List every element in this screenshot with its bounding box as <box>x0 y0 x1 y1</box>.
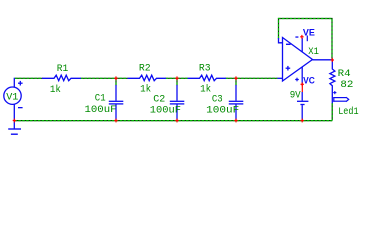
VC red pin stem <box>302 84 303 92</box>
VC plus mark <box>295 78 299 82</box>
junction battery bottom <box>301 119 304 123</box>
op-amp plus input mark <box>286 66 291 71</box>
wire top rail segment 1 <box>15 77 43 79</box>
svg-text:V1: V1 <box>6 92 18 104</box>
VE minus mark <box>295 36 298 37</box>
wire C3 top lead (green part) <box>235 78 237 85</box>
svg-text:R2: R2 <box>139 63 151 75</box>
svg-text:C1: C1 <box>95 92 106 104</box>
svg-text:1k: 1k <box>200 84 211 96</box>
resistor R3 <box>188 75 227 81</box>
svg-text:82: 82 <box>340 79 353 91</box>
V1 bottom lead / ground stem <box>13 104 15 128</box>
VC terminal <box>303 76 315 86</box>
wire LED to bottom rail (green) <box>331 103 333 120</box>
ground <box>8 129 21 134</box>
svg-text:Led1: Led1 <box>338 106 358 118</box>
svg-text:9V: 9V <box>290 89 302 101</box>
LED plus mark <box>333 91 336 94</box>
V1 top lead <box>13 78 15 88</box>
junction C2 bottom <box>175 119 178 123</box>
battery 9V <box>297 92 308 120</box>
op-amp top power pin <box>301 38 303 52</box>
VE terminal <box>303 27 315 41</box>
output wire <box>313 59 333 61</box>
svg-text:VE: VE <box>303 27 315 37</box>
junction output node <box>331 58 334 62</box>
wire top rail segment 4 <box>226 77 278 79</box>
svg-text:1k: 1k <box>50 84 61 96</box>
op-amp minus input mark <box>286 44 291 45</box>
junction C1 bottom <box>114 119 117 123</box>
junction C3 top <box>234 76 237 80</box>
op-amp bottom power pin <box>301 67 303 84</box>
wire top rail segment 3 <box>166 77 188 79</box>
op-amp inverting input lead <box>279 38 283 43</box>
wire bottom rail <box>14 120 332 122</box>
svg-text:1k: 1k <box>140 84 151 96</box>
junction C2 top <box>175 76 178 80</box>
wire feedback loop <box>279 19 333 59</box>
junction C1 top <box>114 76 117 80</box>
svg-text:VC: VC <box>303 76 315 86</box>
wire top rail segment 2 <box>81 77 128 79</box>
voltage source V1 <box>4 87 21 104</box>
svg-text:R3: R3 <box>199 63 211 75</box>
resistor R1 <box>42 75 81 81</box>
svg-text:100uF: 100uF <box>206 104 239 116</box>
V1 minus polarity <box>18 107 23 108</box>
resistor R2 <box>128 75 167 81</box>
wire C2 top lead (green part) <box>176 78 178 85</box>
junction C3 bottom <box>234 119 237 123</box>
resistor R4 <box>330 60 335 103</box>
VE red pin <box>300 35 303 39</box>
capacitor C1 <box>109 85 124 120</box>
wire C1 top lead (green part) <box>115 78 117 85</box>
capacitor C2 <box>170 85 185 120</box>
V1 plus polarity <box>18 81 23 86</box>
junction ground/V1 <box>13 119 16 123</box>
op-amp non-inverting input lead <box>277 77 282 79</box>
LED Led1 <box>333 97 348 102</box>
op-amp X1 <box>283 38 313 82</box>
svg-text:X1: X1 <box>308 46 319 58</box>
svg-text:100uF: 100uF <box>150 105 181 117</box>
VC red pin <box>301 82 304 86</box>
svg-text:100uF: 100uF <box>85 104 117 116</box>
capacitor C3 <box>229 85 244 120</box>
svg-text:C2: C2 <box>153 93 165 105</box>
svg-text:R1: R1 <box>57 63 69 75</box>
